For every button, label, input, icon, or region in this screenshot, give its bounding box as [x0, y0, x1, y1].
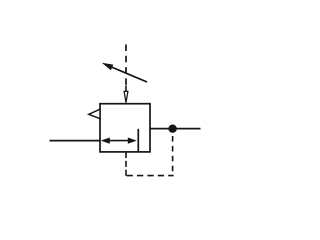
relief vent triangle (left, open)	[89, 109, 100, 119]
regulator body box	[100, 104, 150, 152]
outlet pipe (right)	[150, 128, 201, 130]
flow path double arrow (right head)	[128, 138, 137, 144]
flow path double arrow (left head)	[101, 138, 110, 144]
valve seat vertical line	[137, 129, 139, 152]
spring force hollow arrow (stem)	[125, 86, 127, 92]
adjustment arrow (shaft)	[111, 67, 148, 82]
spring force hollow arrow (open triangle)	[124, 91, 128, 102]
feedback pilot dashed line (bottom horizontal)	[127, 175, 174, 177]
feedback pilot dashed line (down from box)	[125, 152, 127, 176]
adjustment arrow (head)	[102, 63, 114, 71]
feedback pilot dashed line (up to junction)	[172, 133, 174, 176]
inlet pipe (left)	[50, 140, 101, 142]
junction dot	[168, 125, 176, 133]
flow path double-headed arrow (shaft)	[106, 140, 131, 142]
pilot/spring setting dashed line (top)	[125, 45, 127, 87]
